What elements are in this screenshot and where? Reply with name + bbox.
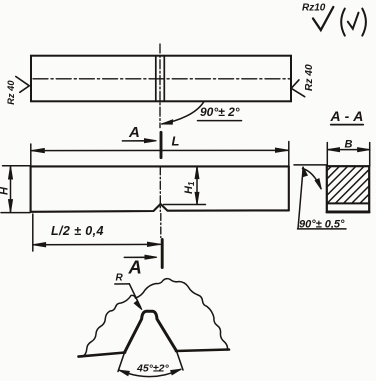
svg-text:90°± 0,5°: 90°± 0,5°	[299, 219, 345, 231]
svg-text:Rz 40: Rz 40	[304, 64, 315, 91]
svg-text:L/2 ± 0,4: L/2 ± 0,4	[51, 224, 104, 238]
svg-text:R: R	[116, 273, 124, 284]
svg-text:H1: H1	[183, 181, 196, 194]
svg-text:A - A: A - A	[330, 108, 364, 124]
svg-text:H: H	[0, 186, 10, 195]
svg-text:A: A	[128, 124, 140, 141]
svg-text:45°±2°: 45°±2°	[136, 363, 169, 375]
svg-text:A: A	[128, 257, 142, 278]
svg-text:Rz 40: Rz 40	[6, 80, 16, 105]
svg-text:90°± 2°: 90°± 2°	[200, 105, 240, 119]
svg-text:B: B	[345, 138, 353, 150]
svg-text:Rz10: Rz10	[302, 2, 326, 13]
svg-text:L: L	[172, 133, 180, 148]
